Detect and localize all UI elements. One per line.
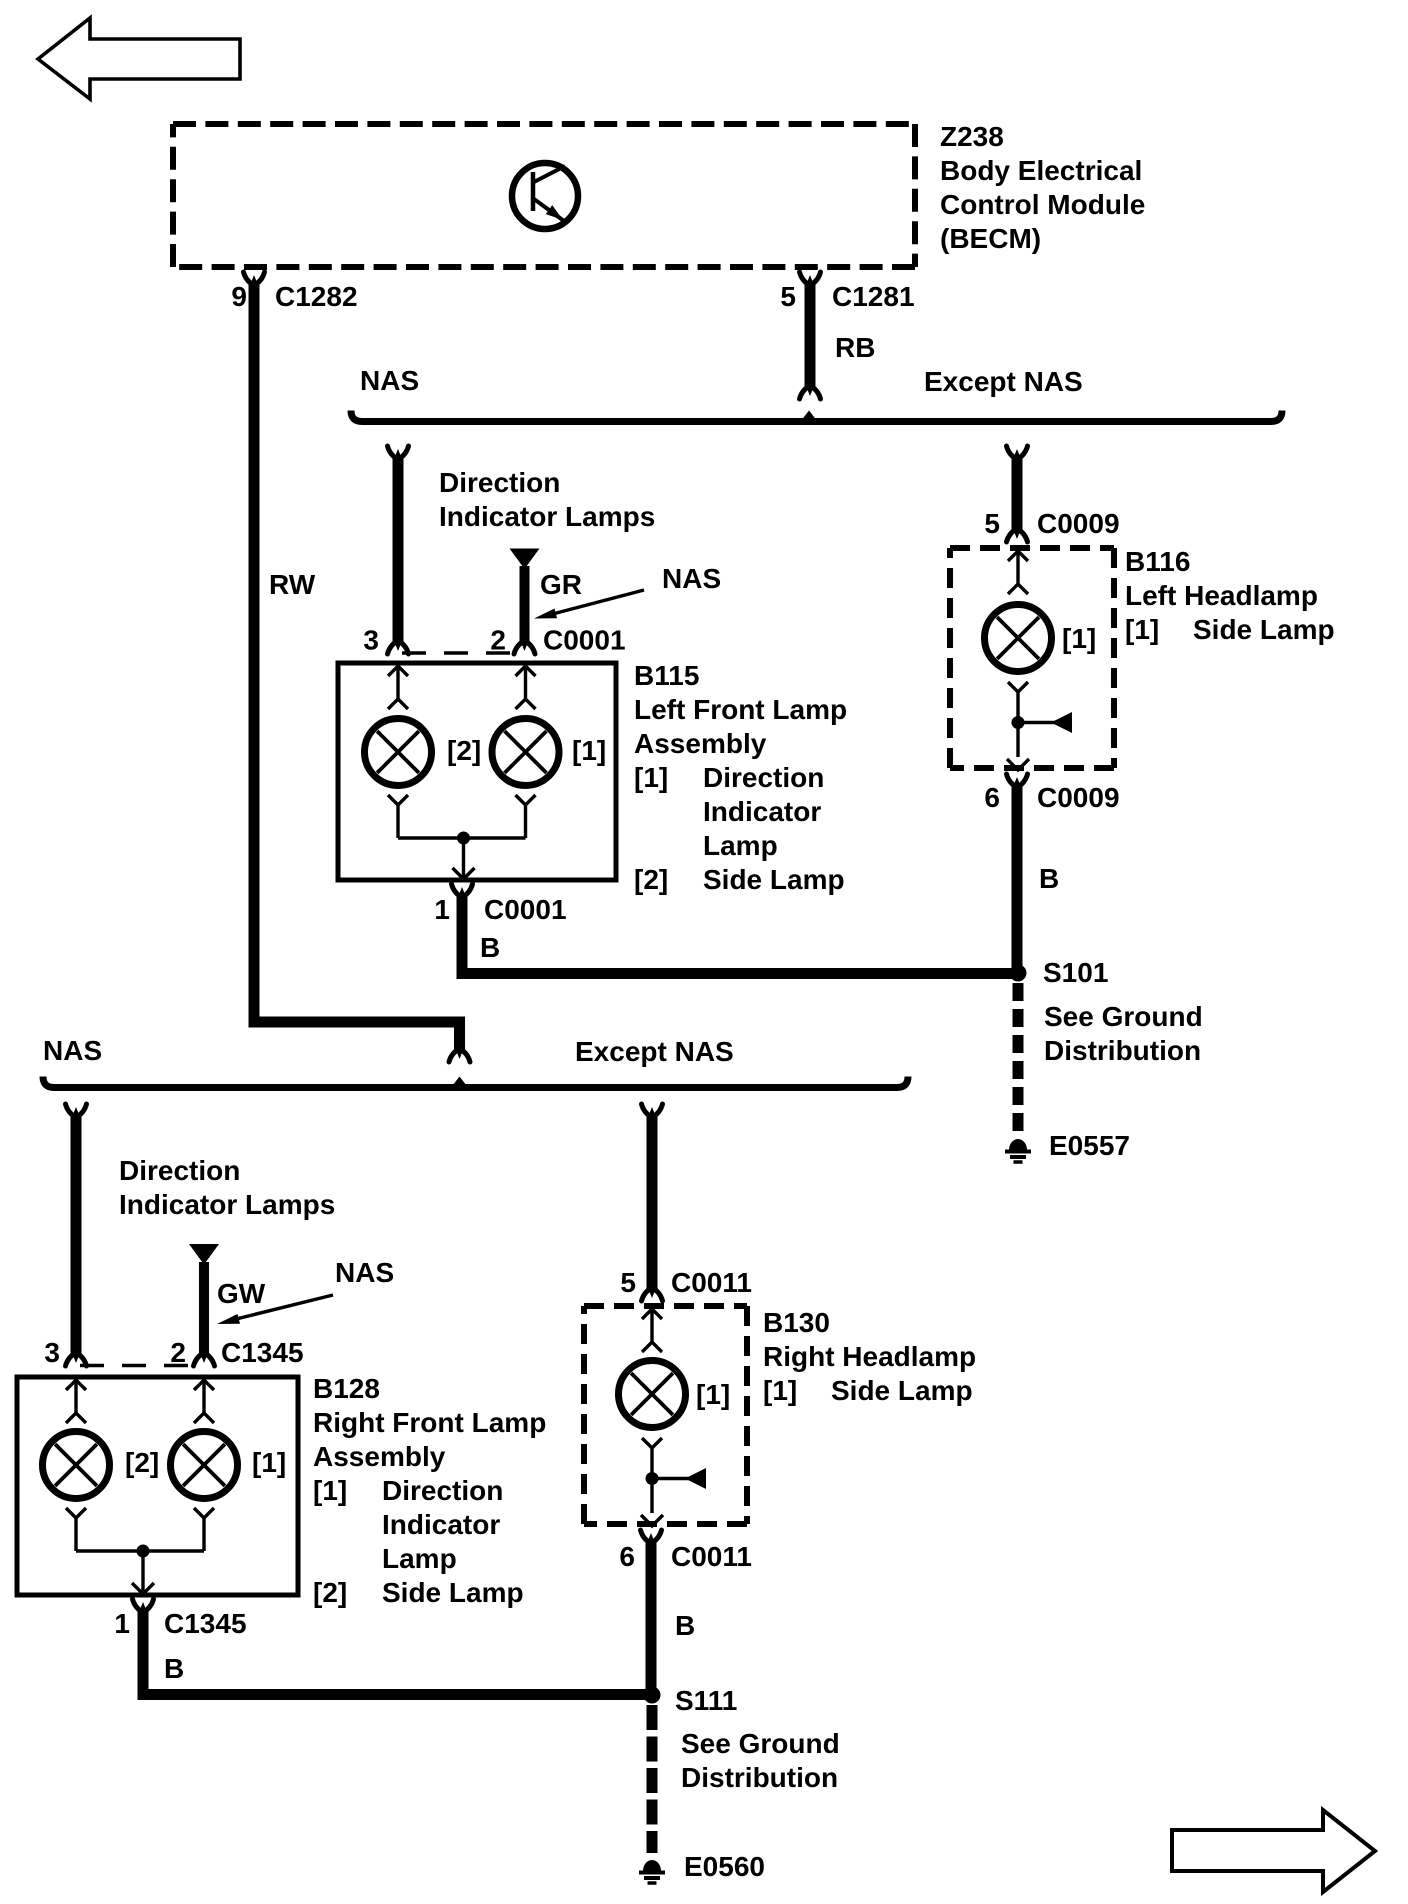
svg-text:[1]: [1] [1062,623,1096,654]
B130 internal junction dot [646,1472,659,1485]
svg-text:RB: RB [835,332,875,363]
svg-text:NAS: NAS [662,563,721,594]
svg-text:Lamp: Lamp [382,1543,457,1574]
svg-text:[1]: [1] [252,1447,286,1478]
connector pin 6 C0009 [984,774,1119,813]
svg-text:Side Lamp: Side Lamp [1193,614,1335,645]
svg-text:Indicator Lamps: Indicator Lamps [119,1189,335,1220]
connector pin 5 C0011 [620,1267,752,1298]
connector pin 5 C1281 [780,272,914,312]
B128 internal pin 3 connection [66,1380,86,1423]
ground E0557 [1009,1139,1027,1150]
svg-text:[2]: [2] [447,735,481,766]
B115 internal wire below lamp [1] [516,795,536,838]
svg-text:NAS: NAS [43,1035,102,1066]
transistor symbol Q (output driver) inside Z238 [512,163,578,229]
label block B128 Right Front Lamp Assembly [313,1373,546,1608]
svg-text:[1]: [1] [634,762,668,793]
component B128 Right Front Lamp Assembly box [17,1377,298,1595]
svg-text:Indicator Lamps: Indicator Lamps [439,501,655,532]
svg-text:Indicator: Indicator [382,1509,500,1540]
svg-text:S111: S111 [675,1685,737,1716]
connector pin 1 C0001 below B115 [434,884,566,925]
svg-text:Except NAS: Except NAS [575,1036,734,1067]
annotation NAS with leader arrow (lower) [217,1257,394,1324]
svg-text:RW: RW [269,569,316,600]
svg-text:B130: B130 [763,1307,830,1338]
B128 internal wire below lamp [2] [66,1508,86,1551]
svg-text:C0011: C0011 [671,1267,752,1298]
svg-text:5: 5 [984,508,1000,539]
B130 internal pin 5 connection [642,1309,662,1352]
wire Except NAS branch to B130 pin 5 [642,1104,663,1301]
svg-text:[2]: [2] [313,1577,347,1608]
svg-text:B115: B115 [634,660,699,691]
wire NAS branch to B128 pin 3 [66,1104,87,1366]
feed triangle from Direction Indicator Lamps circuit (lower) [189,1244,219,1265]
B115 internal wire to pin 1 with arrow [453,838,475,879]
svg-text:6: 6 [984,782,1000,813]
dashed ground wire S101 to E0557 [1013,983,1024,1133]
B115 internal pin 2 connection [516,666,536,709]
svg-text:(BECM): (BECM) [940,223,1041,254]
svg-text:Z238: Z238 [940,121,1004,152]
pin labels 3, 2 and connector C0001 (top of B115) [363,625,625,656]
wire B from B128 pin 1 to splice S111 [138,1610,653,1700]
component B116 Left Headlamp dashed box [950,548,1114,768]
svg-text:C0009: C0009 [1037,782,1120,813]
B115 internal junction bus [398,836,526,839]
B130 internal wire below lamp [642,1438,662,1513]
svg-text:GW: GW [217,1278,266,1309]
svg-text:Right Front Lamp: Right Front Lamp [313,1407,546,1438]
B115 junction dot [457,832,470,845]
svg-text:NAS: NAS [360,365,419,396]
label block B130 Right Headlamp [763,1307,976,1406]
B128 internal pin 2 connection [194,1380,214,1423]
connector pin 6 C0011 [619,1530,752,1572]
svg-text:1: 1 [434,894,450,925]
label Direction Indicator Lamps (lower) [119,1155,335,1220]
svg-text:C1345: C1345 [164,1608,247,1639]
svg-text:Assembly: Assembly [313,1441,446,1472]
lamp [1] direction indicator lamp in B128 [171,1432,238,1499]
svg-text:[1]: [1] [572,735,606,766]
wire B from B130 pin 6 to splice S111 [646,1541,657,1690]
svg-text:Control Module: Control Module [940,189,1145,220]
wire B from B115 pin 1 to splice S101 [457,895,1019,979]
svg-text:Right Headlamp: Right Headlamp [763,1341,976,1372]
lamp [1] side lamp in B130 [619,1361,686,1428]
svg-text:3: 3 [44,1337,60,1368]
svg-text:B116: B116 [1125,546,1190,577]
svg-text:3: 3 [363,625,379,656]
svg-text:GR: GR [540,569,582,600]
svg-text:See Ground: See Ground [681,1728,840,1759]
component B115 Left Front Lamp Assembly box [338,663,616,880]
svg-text:B: B [1039,863,1059,894]
wire B from B116 pin 6 to splice S101 [1012,785,1023,968]
connector pin 9 C1282 [231,272,357,312]
svg-text:S101: S101 [1043,957,1108,988]
lamp [1] direction indicator lamp in B115 [492,719,559,786]
B115 internal pin 3 connection [388,666,408,709]
B128 internal junction bus [76,1549,204,1552]
svg-text:C0009: C0009 [1037,508,1120,539]
B116 internal pin 5 connection [1008,551,1028,594]
svg-text:C1345: C1345 [221,1337,304,1368]
svg-text:[1]: [1] [1125,614,1159,645]
B116 case connection stub with triangle [1018,712,1072,733]
label Z238 Body Electrical Control Module (BECM) [940,121,1145,254]
B128 internal wire to pin 1 with arrow [132,1551,154,1594]
module Z238 BECM dashed box [173,124,915,267]
label See Ground Distribution (S101) [1044,1001,1203,1066]
B128 junction dot [137,1545,150,1558]
svg-text:Distribution: Distribution [1044,1035,1201,1066]
nav arrow right (next sheet) [1172,1810,1375,1892]
feed triangle from Direction Indicator Lamps circuit [510,549,540,570]
wire Except NAS branch to B116 pin 5 [1007,446,1028,542]
wire NAS branch to B115 pin 3 [388,446,409,654]
connector pin 5 C0009 [984,508,1119,539]
svg-text:C0011: C0011 [671,1541,752,1572]
svg-text:B128: B128 [313,1373,380,1404]
component B130 Right Headlamp dashed box [584,1306,747,1524]
svg-text:C1282: C1282 [275,281,358,312]
distribution line 1: NAS / Except NAS [351,411,1282,422]
svg-text:Side Lamp: Side Lamp [382,1577,524,1608]
lamp [2] side lamp in B128 [43,1432,110,1499]
connector pin 1 C1345 below B128 [114,1599,246,1639]
B115 internal wire below lamp [2] [388,795,408,838]
svg-text:E0557: E0557 [1049,1130,1130,1161]
wire GR to B115 pin 2 [514,566,535,654]
nav arrow left (previous sheet) [38,18,240,99]
annotation NAS with leader arrow (upper) [534,563,721,619]
svg-text:Direction: Direction [439,467,560,498]
svg-text:C0001: C0001 [484,894,567,925]
svg-text:Left Headlamp: Left Headlamp [1125,580,1318,611]
svg-text:Side Lamp: Side Lamp [831,1375,973,1406]
svg-text:Direction: Direction [119,1155,240,1186]
svg-text:NAS: NAS [335,1257,394,1288]
lamp [2] side lamp in B115 [365,719,432,786]
svg-text:1: 1 [114,1608,130,1639]
label block B115 Left Front Lamp Assembly [634,660,847,895]
distribution line 2: NAS / Except NAS [43,1077,908,1088]
svg-text:2: 2 [170,1337,186,1368]
svg-text:Side Lamp: Side Lamp [703,864,845,895]
svg-text:See Ground: See Ground [1044,1001,1203,1032]
B130 case connection stub with triangle [652,1468,706,1489]
svg-text:Direction: Direction [382,1475,503,1506]
splice S101 junction dot [1010,965,1027,982]
svg-text:5: 5 [780,281,796,312]
B116 internal junction dot [1012,716,1025,729]
svg-text:9: 9 [231,281,247,312]
B116 internal arrow to pin 6 [1007,759,1029,770]
splice S111 junction dot [644,1687,661,1704]
label block B116 Left Headlamp [1125,546,1335,645]
wire RB from Z238 pin 5 to upper distribution line [800,283,821,427]
B130 internal arrow to pin 6 [641,1515,663,1526]
label See Ground Distribution (S111) [681,1728,840,1793]
svg-text:5: 5 [620,1267,636,1298]
svg-text:B: B [164,1653,184,1684]
svg-text:C1281: C1281 [832,281,915,312]
svg-text:[1]: [1] [763,1375,797,1406]
svg-text:[2]: [2] [634,864,668,895]
svg-text:2: 2 [490,625,506,656]
B116 internal wire below lamp [1008,682,1028,757]
wire GW to B128 pin 2 [194,1262,215,1366]
svg-text:C0001: C0001 [543,625,626,656]
svg-text:Left Front Lamp: Left Front Lamp [634,694,847,725]
svg-text:Lamp: Lamp [703,830,778,861]
svg-text:B: B [480,932,500,963]
ground E0560 [643,1860,661,1871]
svg-text:Assembly: Assembly [634,728,767,759]
svg-text:Except NAS: Except NAS [924,366,1083,397]
lamp [1] side lamp in B116 [985,605,1052,672]
svg-text:Direction: Direction [703,762,824,793]
pin labels 3, 2 and connector C1345 (top of B128) [44,1337,303,1368]
dashed ground wire S111 to E0560 [647,1705,658,1853]
svg-text:[2]: [2] [125,1447,159,1478]
B128 internal wire below lamp [1] [194,1508,214,1551]
svg-text:B: B [675,1610,695,1641]
svg-text:Body Electrical: Body Electrical [940,155,1142,186]
svg-text:E0560: E0560 [684,1851,765,1882]
svg-text:6: 6 [619,1541,635,1572]
svg-text:[1]: [1] [313,1475,347,1506]
svg-text:Distribution: Distribution [681,1762,838,1793]
wire RW from Z238 pin 9 to lower distribution line [249,283,471,1093]
label Direction Indicator Lamps (upper) [439,467,655,532]
svg-text:Indicator: Indicator [703,796,821,827]
svg-text:[1]: [1] [696,1379,730,1410]
